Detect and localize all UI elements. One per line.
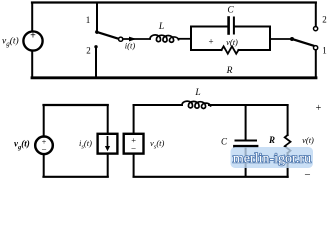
wire RC block to right switch <box>270 38 291 40</box>
wire top rail lower-right loop (left of inductor) <box>134 104 182 106</box>
resistor R top lead (lower circuit) <box>287 105 289 135</box>
RC block left vertical <box>190 27 192 51</box>
inductor L (upper circuit) <box>150 35 179 42</box>
svg-text:+: + <box>316 103 322 114</box>
switch S1 pole 1 lead (vertical from top rail) <box>96 3 98 32</box>
resistor R zigzag (upper circuit) <box>222 46 239 53</box>
wire box bottom lead <box>133 154 135 177</box>
wire top rail right of inductor <box>209 104 288 106</box>
voltage source box vs(t) <box>124 134 144 154</box>
wire from S1 contact to inductor <box>123 38 150 40</box>
node dot pole 1 of S1 <box>95 31 98 34</box>
svg-text:L: L <box>194 88 200 98</box>
switch S2 pole 2 contact circle <box>314 27 318 31</box>
wire top branch right (capacitor to right edge) <box>235 26 270 28</box>
wire bottom branch right <box>239 49 271 51</box>
current source box is(t) <box>98 134 118 154</box>
wire top rail of lower-left loop <box>44 104 108 106</box>
watermark merlin-igor.ru <box>231 147 314 168</box>
wire pole 2 to top rail <box>315 3 317 27</box>
svg-text:C: C <box>227 6 234 16</box>
resistor R bottom lead <box>287 153 289 177</box>
switch S1 moving contact circle <box>119 37 123 41</box>
wire left vertical lower <box>43 154 45 177</box>
wire left vertical upper (source top lead) <box>31 3 33 32</box>
wire top branch left (to capacitor) <box>191 26 227 28</box>
svg-text:1: 1 <box>86 15 91 25</box>
wire right vertical upper of lower-left loop <box>107 105 109 134</box>
svg-text:v(t): v(t) <box>302 135 314 145</box>
wire bottom rail of upper circuit <box>32 76 316 79</box>
capacitor C top lead (lower circuit) <box>245 105 247 139</box>
svg-text:1: 1 <box>322 46 327 56</box>
wire bottom rail of lower-right loop <box>134 176 288 178</box>
node dot pole 2 of S1 <box>94 45 97 48</box>
svg-text:merlin-igor.ru: merlin-igor.ru <box>233 152 311 167</box>
switch S2 arm <box>292 39 313 46</box>
wire right vertical lower of lower-left loop <box>107 154 109 177</box>
wire box top lead <box>133 105 135 134</box>
svg-text:2: 2 <box>86 46 91 56</box>
current arrow i(t) <box>129 37 137 42</box>
wire inductor to RC block <box>179 38 192 40</box>
capacitor C right plate (upper circuit) <box>233 18 235 34</box>
capacitor C bottom lead <box>245 148 247 177</box>
wire left vertical upper (lower source top lead) <box>43 105 45 137</box>
switch S1 pole 2 lead (vertical to bottom rail) <box>95 48 97 78</box>
RC block right vertical <box>269 27 271 51</box>
svg-text:vg(t): vg(t) <box>2 36 19 49</box>
switch S1 arm <box>96 32 118 39</box>
wire left vertical lower (source bottom lead) <box>31 51 33 77</box>
inductor L (lower circuit) <box>182 101 211 108</box>
svg-text:+: + <box>208 37 213 47</box>
wire pole 1 to bottom rail <box>315 50 317 78</box>
svg-text:L: L <box>158 22 164 32</box>
svg-text:−: − <box>131 144 136 154</box>
wire bottom branch left (to resistor) <box>191 49 222 51</box>
svg-text:+: + <box>30 31 36 42</box>
wire top rail of upper circuit <box>32 1 316 3</box>
capacitor C bottom plate (lower) <box>235 145 258 148</box>
resistor R vertical zigzag (lower) <box>285 135 291 153</box>
svg-text:2: 2 <box>322 15 327 25</box>
capacitor C left plate (upper circuit) <box>227 18 230 34</box>
svg-text:−: − <box>304 169 310 181</box>
svg-text:i(t): i(t) <box>125 41 136 51</box>
voltage source Vg (upper circuit) <box>23 31 42 50</box>
arrow inside current source box <box>107 137 109 147</box>
svg-text:v(t): v(t) <box>226 37 238 47</box>
junction dot right switch <box>290 37 294 41</box>
svg-text:R: R <box>226 66 233 76</box>
svg-text:R: R <box>268 135 275 145</box>
capacitor C top plate (lower) <box>236 140 257 142</box>
voltage source vg (lower circuit) <box>35 137 53 155</box>
switch S2 pole 1 contact circle <box>314 46 318 50</box>
svg-text:C: C <box>221 137 228 147</box>
wire bottom rail of lower-left loop <box>44 176 108 178</box>
